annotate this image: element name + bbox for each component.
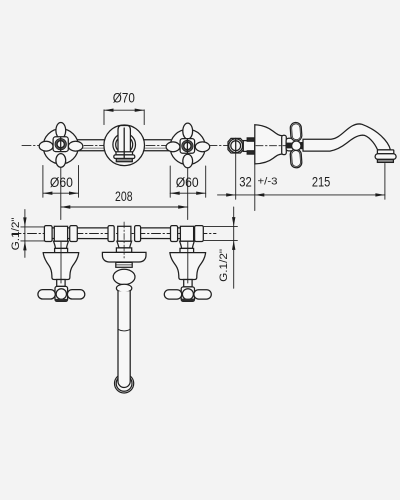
dimension D60 left	[43, 166, 79, 220]
left handle center square and nut	[53, 137, 68, 152]
svg-text:215: 215	[312, 175, 331, 190]
bottom view right bell	[170, 253, 206, 280]
right handle cross lobes	[166, 123, 210, 168]
bottom view right valve centerline	[187, 242, 189, 283]
label 32	[239, 175, 252, 190]
bottom view left tee	[54, 226, 69, 252]
left handle cross lobes	[39, 123, 83, 168]
bottom view right stem	[184, 280, 192, 287]
label G12 left	[10, 217, 22, 250]
side view aerator	[375, 150, 396, 163]
dimension D70	[104, 109, 144, 125]
svg-text:Ø60: Ø60	[50, 175, 73, 190]
label 215	[312, 175, 331, 190]
side view bell escutcheon	[255, 125, 282, 164]
svg-text:Ø60: Ø60	[176, 175, 199, 190]
svg-text:208: 208	[115, 189, 133, 204]
bottom view spout aerator	[115, 374, 134, 393]
bottom view spout plate	[102, 252, 146, 262]
pipe front view right segment	[144, 140, 171, 151]
side view pipe nipple	[243, 138, 254, 154]
label D60 left	[50, 175, 73, 190]
label G12 right	[218, 249, 230, 282]
bottom view spout ball	[113, 269, 135, 284]
label 208	[115, 189, 133, 204]
bottom view centerline	[12, 233, 216, 235]
dimension D60 right	[170, 166, 206, 220]
dimension 32 +/-3 215	[218, 153, 385, 210]
side view ring collar	[282, 135, 287, 154]
pipe front view left segment	[78, 140, 105, 151]
label D60 right	[176, 175, 199, 190]
dimension G12 right	[204, 207, 237, 288]
label tolerance	[258, 177, 278, 188]
svg-text:G.1/2": G.1/2"	[10, 217, 22, 250]
side view handle lobes	[290, 122, 302, 168]
bottom view pipe tube	[52, 228, 194, 239]
centerline front+side view	[22, 145, 313, 147]
side view handle arm shadows	[287, 142, 305, 149]
center escutcheon circle	[104, 125, 145, 166]
label D70	[113, 90, 135, 105]
svg-text:G.1/2": G.1/2"	[218, 249, 230, 282]
bottom view left handle	[38, 286, 85, 301]
bottom view spout centerline	[123, 222, 125, 258]
bottom view right handle	[164, 287, 211, 302]
dimension 208	[61, 205, 188, 208]
bottom view left stem	[57, 280, 65, 287]
spout ball behind tube	[113, 133, 136, 156]
bottom view right tee	[180, 226, 195, 252]
bottom view left valve centerline	[60, 242, 62, 283]
bottom view center tee	[116, 226, 131, 252]
side view centerline over bell	[256, 145, 310, 147]
side view spout	[303, 124, 390, 151]
left handle escutcheon circle	[43, 129, 78, 164]
svg-text:+/-3: +/-3	[258, 177, 278, 188]
svg-text:Ø70: Ø70	[113, 90, 135, 105]
side view handle hub	[286, 138, 297, 151]
bottom view pipe nuts	[44, 226, 203, 242]
bottom view spout tube	[118, 291, 130, 387]
bottom view left bell	[43, 253, 78, 280]
bottom view spout lower bulge	[116, 284, 131, 292]
side view handle front lobe circle	[292, 141, 301, 150]
bottom view spout collar	[116, 262, 132, 267]
dimension G12 left	[21, 210, 44, 258]
svg-text:32: 32	[239, 175, 252, 190]
side view hex wall nut	[228, 138, 243, 153]
right handle escutcheon circle	[170, 129, 205, 164]
spout tube front view	[114, 126, 135, 162]
right handle center square and nut	[180, 139, 195, 154]
